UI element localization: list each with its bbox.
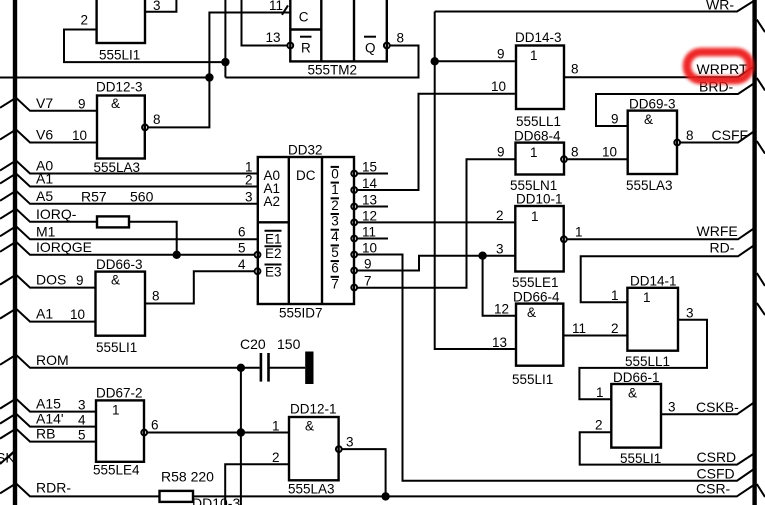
svg-text:555LE4: 555LE4 <box>93 463 140 478</box>
pin 1 bubble out <box>561 236 567 242</box>
svg-text:E2: E2 <box>265 246 282 261</box>
clock edge slash <box>282 5 288 14</box>
wire <box>129 222 177 255</box>
svg-text:3: 3 <box>245 190 253 205</box>
node V7 <box>0 95 96 111</box>
svg-text:2: 2 <box>611 321 619 336</box>
svg-text:A1: A1 <box>36 306 53 322</box>
node CSFD (from DD32 out5) <box>357 255 754 482</box>
svg-text:2: 2 <box>272 450 280 465</box>
svg-text:8: 8 <box>153 112 161 127</box>
svg-text:WRFE: WRFE <box>697 223 738 239</box>
svg-text:5: 5 <box>331 245 339 260</box>
svg-text:10: 10 <box>362 241 377 256</box>
svg-text:9: 9 <box>611 112 619 127</box>
wire <box>757 141 765 154</box>
svg-text:DD66-1: DD66-1 <box>613 370 660 385</box>
svg-text:9: 9 <box>78 97 86 112</box>
wire to DD12-1 pin 1 <box>147 432 289 434</box>
wire to DD66-4 pin 12 <box>483 256 516 316</box>
svg-text:1: 1 <box>530 48 538 63</box>
decoder DD32 (555ID7) <box>238 94 516 321</box>
svg-text:R57: R57 <box>81 189 107 205</box>
pin 3 bubble out <box>336 446 342 452</box>
node A14' <box>0 411 96 427</box>
svg-text:10: 10 <box>491 79 506 94</box>
node IORQGE <box>0 239 255 259</box>
output bubbles <box>351 171 357 177</box>
svg-text:DD12-1: DD12-1 <box>290 402 337 417</box>
wire <box>0 191 258 204</box>
svg-text:V6: V6 <box>36 127 53 143</box>
svg-text:560: 560 <box>130 189 154 205</box>
svg-text:&: & <box>305 419 314 434</box>
svg-text:RB: RB <box>36 426 55 442</box>
svg-text:6: 6 <box>331 261 339 276</box>
wire <box>0 98 96 111</box>
svg-text:E3: E3 <box>265 265 282 280</box>
svg-text:150: 150 <box>277 336 301 352</box>
node IORQ- <box>0 189 177 255</box>
svg-text:9: 9 <box>497 47 505 62</box>
pin 11 out to DD14-1 pin 2 <box>563 335 627 337</box>
wire <box>0 414 96 427</box>
gate DD14-3 (555LL1 OR) <box>435 30 579 129</box>
wire <box>567 228 755 239</box>
svg-text:3: 3 <box>496 242 504 257</box>
svg-text:9: 9 <box>497 145 505 160</box>
junction <box>221 58 229 66</box>
svg-text:R58 220: R58 220 <box>161 468 214 484</box>
svg-text:&: & <box>111 273 120 288</box>
svg-text:E1: E1 <box>265 232 282 247</box>
wire <box>0 429 96 442</box>
svg-text:CSR-: CSR- <box>696 481 731 497</box>
wire WR- trunk <box>435 12 515 350</box>
svg-text:Q: Q <box>365 40 376 55</box>
node A0 <box>0 158 258 174</box>
svg-text:DD66-3: DD66-3 <box>96 257 143 272</box>
svg-text:2: 2 <box>331 198 339 213</box>
pin 8 (Q) bubble <box>384 43 390 49</box>
inverter DD68-4 (555LN1) <box>497 129 628 194</box>
gate DD12-1 (555LA3 NAND) <box>225 402 385 505</box>
node M1 <box>0 223 258 239</box>
node A5 <box>0 188 258 204</box>
wire <box>0 242 255 255</box>
junction <box>431 57 439 65</box>
pin 8 bubble <box>561 156 567 162</box>
wire <box>757 78 765 91</box>
pin 6 bubble out <box>141 430 147 436</box>
wire <box>0 451 15 464</box>
svg-text:8: 8 <box>686 128 694 143</box>
junction <box>205 73 213 81</box>
junction <box>478 252 486 260</box>
wire to DD69-3 pin10 <box>567 158 628 160</box>
node SK (cut label) <box>0 450 15 466</box>
svg-text:3: 3 <box>346 435 354 450</box>
gate DD14-1 (555LL1 OR) <box>579 274 707 400</box>
svg-text:C: C <box>299 10 309 25</box>
svg-text:10: 10 <box>602 145 617 160</box>
svg-text:DD10-3: DD10-3 <box>192 495 240 505</box>
svg-text:2: 2 <box>81 13 89 28</box>
junction <box>237 364 245 372</box>
svg-text:3: 3 <box>668 400 676 415</box>
svg-text:555LE1: 555LE1 <box>512 275 559 290</box>
gate DD66-4 (555LI1 AND) <box>492 290 627 388</box>
junction <box>173 251 181 259</box>
node WR- <box>431 0 755 349</box>
svg-text:14: 14 <box>362 176 378 191</box>
wire <box>0 355 260 368</box>
svg-text:1: 1 <box>575 225 583 240</box>
wire <box>435 1 755 12</box>
wire <box>0 399 96 412</box>
right bus <box>752 0 756 505</box>
wire <box>0 483 160 496</box>
wire <box>757 303 765 315</box>
svg-text:6: 6 <box>151 418 159 433</box>
svg-text:4: 4 <box>331 229 339 244</box>
node A15 <box>0 396 96 412</box>
node BRD- <box>596 79 755 127</box>
gate DD67-2 (555LE4 NOR) <box>78 386 289 478</box>
svg-text:1: 1 <box>596 385 604 400</box>
svg-text:2: 2 <box>245 173 253 188</box>
E2 bubble <box>255 252 261 258</box>
svg-text:5: 5 <box>238 241 246 256</box>
wire pin 13 <box>242 0 288 46</box>
svg-text:WRPRT: WRPRT <box>697 61 749 77</box>
svg-text:2: 2 <box>496 208 504 223</box>
wire <box>357 255 754 481</box>
svg-text:DD14-1: DD14-1 <box>630 274 677 289</box>
wire <box>596 83 755 126</box>
pin 8 bubble <box>674 140 680 146</box>
svg-text:555LI1: 555LI1 <box>512 372 553 387</box>
resistor R58 <box>160 491 194 502</box>
svg-text:IORQ-: IORQ- <box>36 206 77 222</box>
svg-text:555LL1: 555LL1 <box>516 114 561 129</box>
svg-text:8: 8 <box>571 145 579 160</box>
svg-text:13: 13 <box>362 193 377 208</box>
svg-text:DOS: DOS <box>36 272 66 288</box>
svg-text:DD10-1: DD10-1 <box>516 192 563 207</box>
svg-text:DD67-2: DD67-2 <box>96 386 143 401</box>
svg-text:7: 7 <box>331 276 339 291</box>
svg-text:IORQGE: IORQGE <box>36 239 92 255</box>
node CSKB- <box>661 399 754 415</box>
svg-text:DD69-3: DD69-3 <box>629 97 676 112</box>
wire <box>565 66 755 77</box>
svg-text:3: 3 <box>331 214 339 229</box>
svg-text:CSFD: CSFD <box>697 466 735 482</box>
svg-text:RD-: RD- <box>710 240 735 256</box>
svg-text:12: 12 <box>362 208 377 223</box>
svg-text:5: 5 <box>78 428 86 443</box>
svg-text:555LI1: 555LI1 <box>99 48 140 63</box>
svg-text:8: 8 <box>571 62 579 77</box>
node DOS <box>0 272 96 288</box>
wire <box>193 485 754 496</box>
node WRPRT <box>565 61 755 77</box>
svg-text:0: 0 <box>331 166 339 181</box>
capacitor C20 <box>240 336 314 384</box>
svg-text:DD68-4: DD68-4 <box>514 129 561 144</box>
svg-text:1: 1 <box>530 145 538 160</box>
svg-text:9: 9 <box>364 257 372 272</box>
wire <box>581 245 755 302</box>
svg-text:2: 2 <box>595 418 603 433</box>
svg-text:555LI1: 555LI1 <box>620 451 661 466</box>
svg-text:15: 15 <box>362 160 377 175</box>
svg-text:555LA3: 555LA3 <box>626 178 673 193</box>
svg-text:13: 13 <box>492 335 507 350</box>
svg-text:M1: M1 <box>36 223 56 239</box>
svg-text:12: 12 <box>494 302 509 317</box>
gate DD10-1 (555LE1 NOR) <box>478 192 582 316</box>
svg-text:555LA3: 555LA3 <box>94 160 141 175</box>
svg-text:&: & <box>111 96 120 111</box>
node RD- <box>581 240 755 303</box>
svg-text:1: 1 <box>272 419 280 434</box>
svg-text:DD14-3: DD14-3 <box>515 30 562 45</box>
svg-text:A5: A5 <box>36 188 53 204</box>
svg-text:A2: A2 <box>264 194 281 209</box>
node A1 <box>0 171 258 187</box>
svg-text:1: 1 <box>331 182 339 197</box>
wire <box>0 161 258 174</box>
svg-text:11: 11 <box>269 0 283 13</box>
svg-text:3: 3 <box>686 306 694 321</box>
left bus <box>13 0 17 505</box>
node A1 (second) <box>0 306 96 322</box>
svg-text:1: 1 <box>531 209 539 224</box>
node V6 <box>0 127 96 143</box>
node RDR- <box>0 468 754 502</box>
wire <box>269 367 306 369</box>
node CSRD <box>580 432 754 465</box>
svg-text:9: 9 <box>76 273 84 288</box>
wire <box>0 275 96 288</box>
wire <box>757 484 765 497</box>
node CSFF <box>680 127 754 143</box>
svg-text:555LI1: 555LI1 <box>96 340 137 355</box>
out stubs 15/13/11 <box>357 173 388 175</box>
svg-text:7: 7 <box>364 274 372 289</box>
svg-text:&: & <box>628 386 637 401</box>
svg-text:DD66-4: DD66-4 <box>513 290 560 305</box>
gate DD66-? top (555LI1, cut at top) <box>64 0 225 63</box>
svg-text:8: 8 <box>152 289 160 304</box>
svg-text:1: 1 <box>112 403 120 418</box>
gate DD66-3 (555LI1 AND) <box>70 257 255 355</box>
svg-text:A1: A1 <box>36 171 53 187</box>
screen bar <box>305 352 313 385</box>
svg-text:555ID7: 555ID7 <box>279 306 323 321</box>
svg-text:555TM2: 555TM2 <box>308 63 358 78</box>
E3 bubble <box>255 268 261 274</box>
svg-text:R: R <box>301 40 311 55</box>
wire <box>757 273 765 286</box>
resistor R57 <box>97 216 129 227</box>
svg-text:CSFF: CSFF <box>712 127 749 143</box>
wire across left bus <box>0 77 209 79</box>
svg-text:10: 10 <box>72 128 87 143</box>
svg-text:4: 4 <box>238 257 246 272</box>
svg-text:CSKB-: CSKB- <box>696 399 739 415</box>
svg-text:8: 8 <box>397 31 405 46</box>
wire <box>0 226 258 239</box>
wire <box>0 174 258 187</box>
svg-text:11: 11 <box>572 321 586 336</box>
wire <box>0 309 96 322</box>
right bus entry stubs <box>757 20 765 497</box>
svg-text:1: 1 <box>643 290 651 305</box>
svg-text:13: 13 <box>266 30 281 45</box>
pin 8 bubble <box>142 125 148 131</box>
svg-text:WR-: WR- <box>706 0 734 13</box>
svg-text:DC: DC <box>296 168 316 183</box>
svg-text:DD12-3: DD12-3 <box>96 80 143 95</box>
svg-text:11: 11 <box>362 225 376 240</box>
svg-text:ROM: ROM <box>36 352 69 368</box>
svg-text:555LA3: 555LA3 <box>288 482 335 497</box>
svg-text:A14': A14' <box>36 411 64 427</box>
flip-flop DD?? 555TM2 (cut at top) <box>225 0 418 78</box>
wire <box>0 209 97 222</box>
svg-text:V7: V7 <box>36 95 53 111</box>
wire vertical to top edge <box>224 0 226 78</box>
junction <box>381 492 389 500</box>
svg-text:DD32: DD32 <box>288 143 323 158</box>
wire Q out <box>225 46 418 78</box>
wire <box>757 20 765 32</box>
wire pin11 net <box>148 13 290 128</box>
wire <box>580 432 754 464</box>
gate DD69-3 (555LA3 NAND) <box>611 97 694 194</box>
annotation red marker circle around WRPRT <box>687 52 750 80</box>
wire <box>661 403 754 415</box>
svg-text:&: & <box>644 112 653 127</box>
wire <box>680 131 754 143</box>
junction <box>237 428 245 436</box>
svg-text:C20: C20 <box>240 336 266 352</box>
node WRFE <box>567 223 755 239</box>
svg-text:4: 4 <box>78 413 86 428</box>
gate DD12-3 (555LA3 NAND) <box>72 80 161 176</box>
svg-text:RDR-: RDR- <box>36 479 71 495</box>
svg-text:A15: A15 <box>36 396 61 412</box>
gate DD66-1 (555LI1 AND) <box>595 370 676 466</box>
svg-text:6: 6 <box>238 225 246 240</box>
node ROM <box>0 352 260 505</box>
svg-text:&: & <box>527 305 536 320</box>
svg-text:1: 1 <box>611 288 619 303</box>
wire <box>240 368 242 505</box>
svg-text:555LL1: 555LL1 <box>625 354 670 369</box>
svg-text:3: 3 <box>78 398 86 413</box>
node RB <box>0 426 96 442</box>
svg-text:10: 10 <box>70 307 85 322</box>
wire out7 to DD68-4 pin9 <box>357 159 515 288</box>
wire out3 to DD10-1 pin2 <box>357 221 515 223</box>
wire <box>0 130 96 143</box>
svg-text:CSRD: CSRD <box>697 449 737 465</box>
wire out1 to DD14-3 pin10 <box>357 94 515 190</box>
wire out6 to junction <box>357 256 483 271</box>
